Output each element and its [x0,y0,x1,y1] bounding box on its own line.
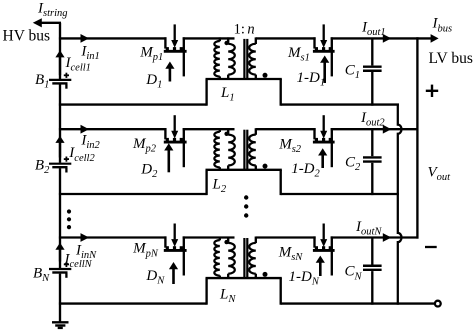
transformer T2 secondary polarity dot [263,164,268,169]
wire rowN secondary to MsN [256,236,316,238]
transformer TN secondary polarity dot [263,272,268,277]
transformer T1 core [243,39,245,79]
duty-cycle arrow D1 [169,68,172,82]
wire row1 output from Ms1 [331,37,432,39]
duty-cycle arrow 1-D1 [323,62,326,84]
MOSFET Ms2 [313,128,315,139]
continuation dots on HV bus string [67,209,71,213]
current arrow I_outN [383,233,392,242]
wire row1 secondary to Ms1 [256,37,316,39]
current arrow I_string [42,22,62,24]
wire row2 secondary to Ms2 [256,128,316,130]
wire row1 input from bus to Mp1 [59,37,167,39]
wire row1 bottom rail right [281,103,399,105]
transformer TN secondary winding [255,237,257,244]
current arrow I_cell1 [59,56,61,75]
battery BN [49,268,71,270]
wire rowN bottom rail right [281,302,435,304]
current arrow I_bus [431,34,439,43]
wire row1 Mp1 to transformer primary [183,37,235,39]
svg-text:1:n: 1:n [234,21,255,37]
current arrow I_cellN [59,248,61,261]
wire LV bus vertical [416,37,418,238]
inductor L2 (magnetizing inductance) [219,128,221,132]
wire HV bus vertical (series string) [59,23,61,79]
label plus polarity [426,90,438,92]
transformer T2 secondary winding [255,128,257,135]
MOSFET Ms1 [313,37,315,48]
wire rowN bottom rail left [59,302,207,304]
transformer T1 primary winding [227,37,229,44]
wire rowN input from bus to MpN [59,236,167,238]
wire row2 bottom rail right [281,193,399,195]
transformer T2 primary winding [227,128,229,135]
transformer T2 primary polarity dot [224,132,228,136]
wire rowN MpN to transformer primary [183,236,235,238]
inductor L1 (magnetizing inductance) [219,37,221,41]
current arrow I_in2 [81,125,90,134]
wire row2 input from bus to Mp2 [59,128,167,130]
capacitor C1 [371,38,373,65]
wire rowN output from MsN [331,236,419,238]
MOSFET Mp1 [164,37,166,48]
transformer TN core [243,238,245,278]
svg-text:HV bus: HV bus [3,27,51,44]
duty-cycle arrow DN [172,268,175,284]
wire row1 bottom raised under transformer [206,78,282,80]
inductor LN (magnetizing inductance) [219,237,221,241]
battery B1 [49,79,71,81]
continuation dots between modules [244,195,248,199]
MOSFET Mp2 [164,128,166,139]
wire row1 bottom rail left [59,103,207,105]
wire rowN bottom raised under transformer [206,277,282,279]
transformer T1 secondary polarity dot [263,73,268,78]
ground [52,321,69,323]
svg-text:LV bus: LV bus [429,50,473,67]
current arrow I_cell2 [59,141,61,157]
MOSFET MpN [164,236,166,247]
current arrow I_in1 [81,34,90,43]
transformer T1 secondary winding [255,37,257,44]
battery B2 [49,163,71,165]
capacitor C2 [371,129,373,156]
capacitor CN [371,238,373,265]
transformer TN primary winding [227,237,229,244]
wire row2 bottom rail left [59,193,207,195]
duty-cycle arrow D2 [168,149,171,172]
wire negative output rail with crossover hops [398,104,402,305]
label minus polarity [425,246,437,248]
terminal negative output (open circle) [435,301,441,307]
current arrow I_out1 [383,34,392,43]
duty-cycle arrow 1-DN [319,262,322,276]
wire row2 Mp2 to transformer primary [183,128,235,130]
current arrow I_inN [81,233,90,242]
current arrow I_out2 [383,125,392,134]
transformer TN primary polarity dot [224,240,228,244]
MOSFET MsN [313,236,315,247]
transformer T1 primary polarity dot [224,41,228,45]
wire row2 output from Ms2 [331,128,419,130]
duty-cycle arrow 1-D2 [321,154,324,168]
transformer T2 core [243,130,245,170]
wire row2 bottom raised under transformer [206,169,282,171]
